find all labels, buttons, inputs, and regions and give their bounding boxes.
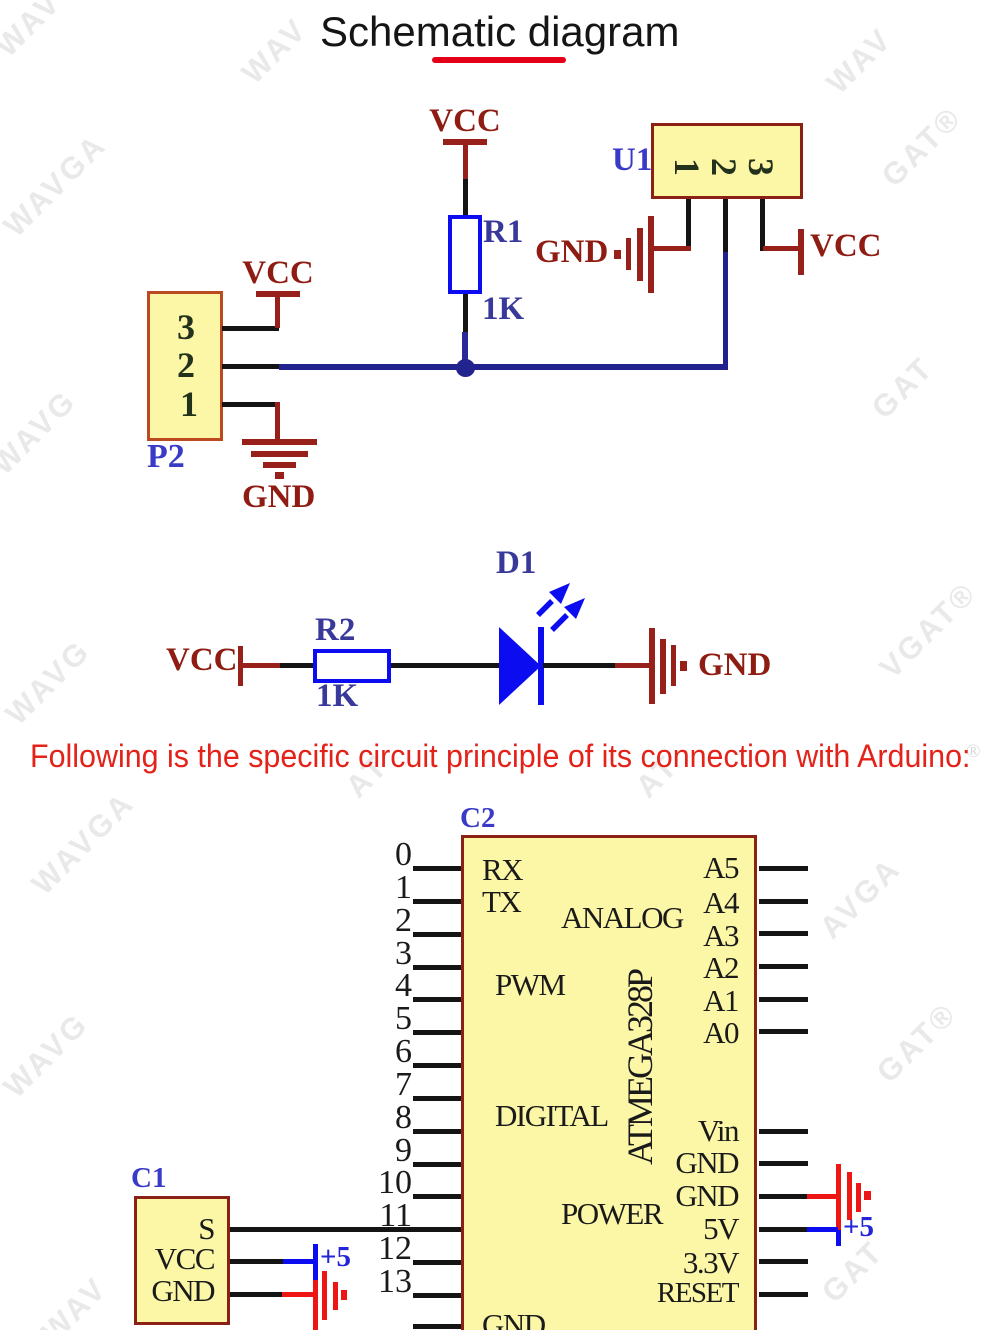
wire P2 pin3	[222, 326, 279, 331]
pin number 2 (C2)	[330, 904, 412, 938]
ground (LED) dot	[680, 661, 687, 671]
ground (C2 right) bar1 tall	[836, 1164, 841, 1230]
wire 5V (black)	[759, 1227, 807, 1232]
power +5 bar (C2 right)	[836, 1230, 841, 1246]
ground (LED) bar1 tall	[649, 628, 655, 704]
label A4 (C2 right)	[640, 887, 738, 918]
wire A5	[759, 866, 808, 871]
wire C1 VCC (black)	[230, 1259, 283, 1264]
power VCC label (P2 pin3)	[242, 257, 314, 290]
wire A0	[759, 1029, 808, 1034]
wire GND right2 (red)	[807, 1194, 838, 1199]
ground (C2 right) bar3	[856, 1183, 861, 1212]
label PWM	[495, 969, 565, 1000]
wire pin 2	[413, 932, 461, 937]
label A1 (C2 right)	[640, 985, 738, 1016]
label P2	[147, 440, 185, 474]
ground GND (P2) bar2	[251, 451, 308, 457]
label TX (pin1)	[482, 886, 520, 917]
label VCC (C1)	[120, 1243, 214, 1274]
pin number 3 (P2)	[177, 309, 195, 345]
wire pin 10	[413, 1194, 461, 1199]
ground GND (P2) dot	[275, 472, 284, 479]
wire pin 6	[413, 1063, 461, 1068]
wire C1 GND (black)	[230, 1292, 282, 1297]
label C2	[460, 804, 495, 833]
title	[320, 11, 676, 53]
pin number 9 (C2)	[330, 1134, 412, 1168]
wire black VCC to R1 top	[463, 179, 468, 216]
pin number 3 (U1, rotated)	[749, 154, 773, 180]
LED D1 symbol	[490, 575, 600, 715]
wire U1 pin3 down	[760, 199, 765, 251]
resistor R1 body	[448, 215, 482, 294]
label GND (C2 right)	[640, 1147, 738, 1178]
ground GND label (U1)	[535, 236, 608, 269]
node junction dot	[456, 359, 475, 377]
label R1	[483, 216, 523, 249]
wire GND right2 (black)	[759, 1194, 807, 1199]
ground (C1) bar2	[322, 1271, 327, 1320]
label 5V (C2 right)	[640, 1213, 738, 1244]
pin number 7 (C2)	[330, 1068, 412, 1102]
pin number 12 (C2)	[330, 1232, 412, 1266]
power +5 bar (C1) blue	[313, 1244, 318, 1280]
power VCC bar (above R1)	[443, 139, 487, 145]
label C1	[131, 1164, 166, 1193]
pin number 1 (P2)	[180, 386, 198, 422]
wire U1 pin2 down (black)	[723, 199, 728, 252]
connector P2 body	[147, 291, 223, 441]
power VCC bar (P2 pin3)	[256, 291, 300, 297]
ground GND (P2) bar3	[263, 462, 296, 468]
IC C2 body (ATMEGA328P)	[461, 835, 757, 1330]
power VCC label (LED circuit)	[166, 644, 238, 677]
pin number 10 (C2)	[330, 1166, 412, 1200]
wire A4	[759, 899, 808, 904]
ground (U1) bar2	[637, 228, 643, 281]
label GND (C2 right)	[640, 1180, 738, 1211]
capacitor C1 body	[134, 1196, 230, 1325]
IC U1 body	[651, 123, 803, 199]
wire VCC stub down to pin3 (dark red)	[275, 297, 280, 328]
wire VCC to R2 (dark red)	[243, 663, 280, 668]
pin number 13 (C2)	[330, 1265, 412, 1299]
wire R2 to LED	[391, 663, 499, 668]
wire U1 pin1 down	[686, 199, 691, 251]
wire pin 8	[413, 1129, 461, 1134]
power VCC bar (LED circuit)	[238, 646, 243, 686]
pin number 4 (C2)	[330, 969, 412, 1003]
wire pin 11 to C1.S	[230, 1227, 461, 1232]
ground (C1) bar3	[333, 1282, 338, 1310]
label A2 (C2 right)	[640, 952, 738, 983]
label ANALOG	[561, 902, 683, 933]
ground (U1) bar3	[626, 238, 631, 270]
wire RESET	[759, 1292, 808, 1297]
wire VCC stub (dark red) down from bar	[463, 145, 468, 179]
wire U1 pin3 right (dark red)	[763, 246, 801, 251]
label A0 (C2 right)	[640, 1017, 738, 1048]
label DIGITAL	[495, 1100, 608, 1131]
wire pin 9	[413, 1162, 461, 1167]
pin number 3 (C2)	[330, 937, 412, 971]
wire A2	[759, 964, 808, 969]
label POWER	[561, 1198, 662, 1229]
wire pin 4	[413, 997, 461, 1002]
pin number 6 (C2)	[330, 1035, 412, 1069]
label GND (C1)	[120, 1275, 214, 1306]
wire pin 5	[413, 1030, 461, 1035]
wire P2 pin1	[222, 402, 279, 407]
pin number 2 (U1, rotated)	[712, 154, 736, 180]
wire P2 pin2 (black)	[222, 364, 279, 369]
power VCC net label (above R1)	[429, 105, 501, 138]
label D1	[496, 547, 536, 580]
label +5 (C2 right)	[843, 1213, 874, 1242]
wire C1 VCC (blue)	[283, 1259, 316, 1264]
label 3.3V (C2 right)	[640, 1247, 738, 1278]
wire GND right1	[759, 1161, 808, 1166]
ground (C2 right) dot	[864, 1191, 871, 1200]
wire A1	[759, 997, 808, 1002]
power VCC label (U1 pin3)	[810, 230, 882, 263]
ground (C2 right) bar2	[847, 1172, 852, 1220]
ground GND (P2) bar1	[242, 439, 317, 445]
pin number 0 (C2)	[330, 838, 412, 872]
wire pin 3	[413, 965, 461, 970]
wire A3	[759, 931, 808, 936]
wire black R1 bottom down	[463, 294, 468, 332]
wire LED to GND (black)	[543, 663, 615, 668]
caption	[30, 740, 970, 772]
wire 3.3V	[759, 1259, 808, 1264]
ground (LED) bar3	[671, 645, 676, 686]
wire pin 0	[413, 866, 461, 871]
wire pin 13	[413, 1293, 461, 1298]
wire pin 7	[413, 1096, 461, 1101]
label U1	[612, 144, 652, 177]
value label 1K (R1)	[482, 293, 524, 326]
wire 5V (blue)	[807, 1227, 838, 1232]
wire pin 12	[413, 1260, 461, 1265]
wire pin 1	[413, 899, 461, 904]
label R2	[315, 614, 355, 647]
label RESET (C2 right)	[640, 1279, 738, 1308]
wire pin below 13	[413, 1324, 461, 1329]
wire LED to GND (dark red)	[615, 663, 650, 668]
label A3 (C2 right)	[640, 920, 738, 951]
ground GND label (LED)	[698, 649, 771, 682]
label ATMEGA328P (rotated)	[622, 968, 658, 1168]
ground (U1) dot	[614, 250, 621, 259]
label +5 (C1)	[320, 1243, 351, 1272]
label A5 (C2 right)	[640, 852, 738, 883]
ground GND label (P2)	[242, 481, 315, 514]
pin number 8 (C2)	[330, 1101, 412, 1135]
pin number 11 (C2)	[330, 1199, 412, 1233]
wire Vin	[759, 1129, 808, 1134]
wire U1 pin1 left (dark red)	[653, 246, 691, 251]
pin number 2 (P2)	[177, 347, 195, 383]
label RX (pin0)	[482, 854, 522, 885]
pin number 1 (U1, rotated)	[675, 154, 699, 180]
title underline	[432, 57, 566, 63]
wire to R2 (black)	[280, 663, 314, 668]
ground (U1) bar1 tall	[648, 216, 654, 293]
wire net blue P2.2 to U1.2	[279, 364, 728, 370]
ground (LED) bar2	[660, 639, 666, 694]
power VCC bar (U1 pin3)	[798, 229, 804, 275]
wire U1 pin2 down (blue)	[723, 252, 728, 370]
resistor R2 body	[313, 649, 391, 683]
label S (C1)	[120, 1213, 214, 1244]
label Vin (C2 right)	[640, 1115, 738, 1146]
pin number 1 (C2)	[330, 871, 412, 905]
wire pin1 down to GND (dark red)	[275, 402, 280, 440]
wire C1 GND (red)	[282, 1292, 316, 1297]
pin number 5 (C2)	[330, 1002, 412, 1036]
ground (C1) dot	[341, 1290, 347, 1300]
label GND (bottom of C2)	[482, 1309, 545, 1330]
ground (C1) bar1 tall	[313, 1280, 318, 1330]
value label 1K (R2)	[316, 680, 358, 713]
wire navy down to node	[462, 332, 468, 366]
